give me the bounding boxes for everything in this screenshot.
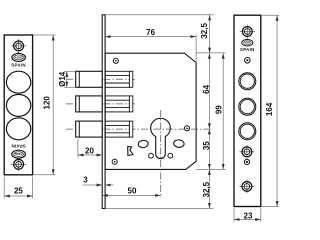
- dimension 120 line: [52, 35, 54, 175]
- right plate hole 1: [239, 73, 256, 90]
- right plate screw mid: [239, 145, 254, 159]
- bolt 3 tail inner lines: [105, 124, 129, 126]
- svg-text:64: 64: [202, 84, 211, 93]
- extension: case right edge up to 76 dim: [195, 35, 197, 63]
- dimension 25 line: [4, 195, 32, 197]
- extension line flange bottom to right: [105, 207, 213, 209]
- forend flange: [102, 15, 105, 209]
- dimension 23 extension lines: [233, 208, 235, 222]
- dimension Ø14 line: [66, 71, 68, 87]
- svg-text:23: 23: [244, 211, 253, 220]
- right plate top screw: [240, 25, 255, 39]
- extension line case bottom to right: [196, 168, 225, 170]
- bolt 3 tail outer: [105, 121, 129, 137]
- dimension 20 extension line: [77, 140, 79, 158]
- left plate bottom screw: [11, 157, 26, 171]
- dimension 50 line: [102, 194, 161, 196]
- svg-text:SPAIN: SPAIN: [11, 62, 26, 67]
- case screw bottom-left: [112, 159, 117, 164]
- svg-text:164: 164: [265, 102, 274, 116]
- small hole left of stem: [149, 153, 154, 158]
- bolt 1 tail outer: [105, 71, 129, 87]
- bolt 1 centerline: [66, 78, 135, 80]
- extension line case top to right: [196, 52, 225, 54]
- right plate hole 2: [239, 98, 256, 115]
- dimension Ø14 extension lines: [64, 70, 76, 72]
- left plate hole 1: [6, 71, 30, 93]
- bolt 2 tail cap: [129, 96, 132, 112]
- svg-text:Ø14: Ø14: [58, 71, 67, 87]
- right plate small hole top: [245, 58, 251, 64]
- right plate screw bottom: [239, 179, 254, 193]
- dimension 32,5 bottom line: [208, 169, 210, 208]
- svg-text:99: 99: [215, 105, 224, 114]
- dimension 76 line: [105, 36, 196, 38]
- euro cylinder profile: [151, 118, 171, 158]
- left plate top logo: [12, 53, 26, 62]
- svg-text:50: 50: [128, 187, 137, 196]
- dimension 3 leader left: [83, 184, 103, 186]
- dimension 23 line: [234, 219, 261, 221]
- svg-text:32,5: 32,5: [200, 23, 209, 39]
- svg-text:120: 120: [43, 96, 52, 110]
- dimension 25 extension lines: [3, 177, 5, 199]
- left plate hole 3: [6, 118, 30, 140]
- svg-text:35: 35: [202, 141, 211, 150]
- small hole right of stem: [168, 153, 173, 158]
- right plate outline: [234, 15, 261, 206]
- dimension 35 line: [208, 129, 210, 170]
- right plate logo: [242, 39, 253, 46]
- right plate hole 3: [239, 123, 256, 140]
- case screw right: [184, 126, 189, 131]
- left plate outline: [4, 35, 32, 175]
- dimension 164 extension lines: [262, 14, 279, 16]
- bolt 2 face line: [78, 96, 80, 112]
- bolt 3 face line: [78, 121, 80, 137]
- svg-text:3: 3: [83, 176, 88, 185]
- dimension 32,5 top line: [209, 15, 211, 53]
- bolt 2 protruding body: [76, 96, 103, 112]
- svg-text:20: 20: [85, 146, 94, 155]
- bolt 1 tail cap: [129, 71, 132, 87]
- main horizontal centerline through bolt 3 and cylinder: [66, 128, 213, 130]
- bolt 1 tail inner lines: [105, 75, 129, 77]
- bolt 2 tail inner lines: [105, 99, 129, 101]
- dimension 164 line: [276, 15, 278, 206]
- lock case outline (chamfered right corners): [105, 53, 196, 169]
- bolt 1 face line: [78, 71, 80, 87]
- bolt 1 protruding body: [76, 71, 103, 87]
- left plate top screw: [11, 39, 26, 53]
- svg-text:76: 76: [146, 28, 155, 37]
- dimension 120 extension lines: [34, 34, 56, 36]
- bolt 3 protruding body: [76, 121, 103, 137]
- svg-text:32,5: 32,5: [202, 181, 211, 197]
- dimension 64 line: [208, 53, 210, 129]
- svg-text:SPAIN: SPAIN: [11, 144, 26, 149]
- left plate bottom logo: [12, 150, 26, 159]
- bolt 2 tail outer: [105, 96, 129, 112]
- right oval slot: [173, 139, 184, 147]
- case screw top-left: [113, 58, 118, 63]
- dimension 99 line: [222, 53, 224, 169]
- svg-text:25: 25: [14, 187, 23, 196]
- bolt 2 centerline: [66, 103, 135, 105]
- bolt 3 tail cap: [129, 121, 132, 137]
- left oval slot: [138, 140, 149, 148]
- dimension 3 leader right: [105, 184, 113, 186]
- left plate hole 2: [6, 94, 30, 116]
- lever bracket detail: [128, 146, 133, 155]
- cylinder vertical centerline: [160, 110, 162, 198]
- svg-text:SPAIN: SPAIN: [240, 47, 255, 52]
- dimension 20 line: [78, 154, 102, 156]
- extension line flange top to right: [105, 14, 213, 16]
- right plate small hole mid: [244, 159, 249, 164]
